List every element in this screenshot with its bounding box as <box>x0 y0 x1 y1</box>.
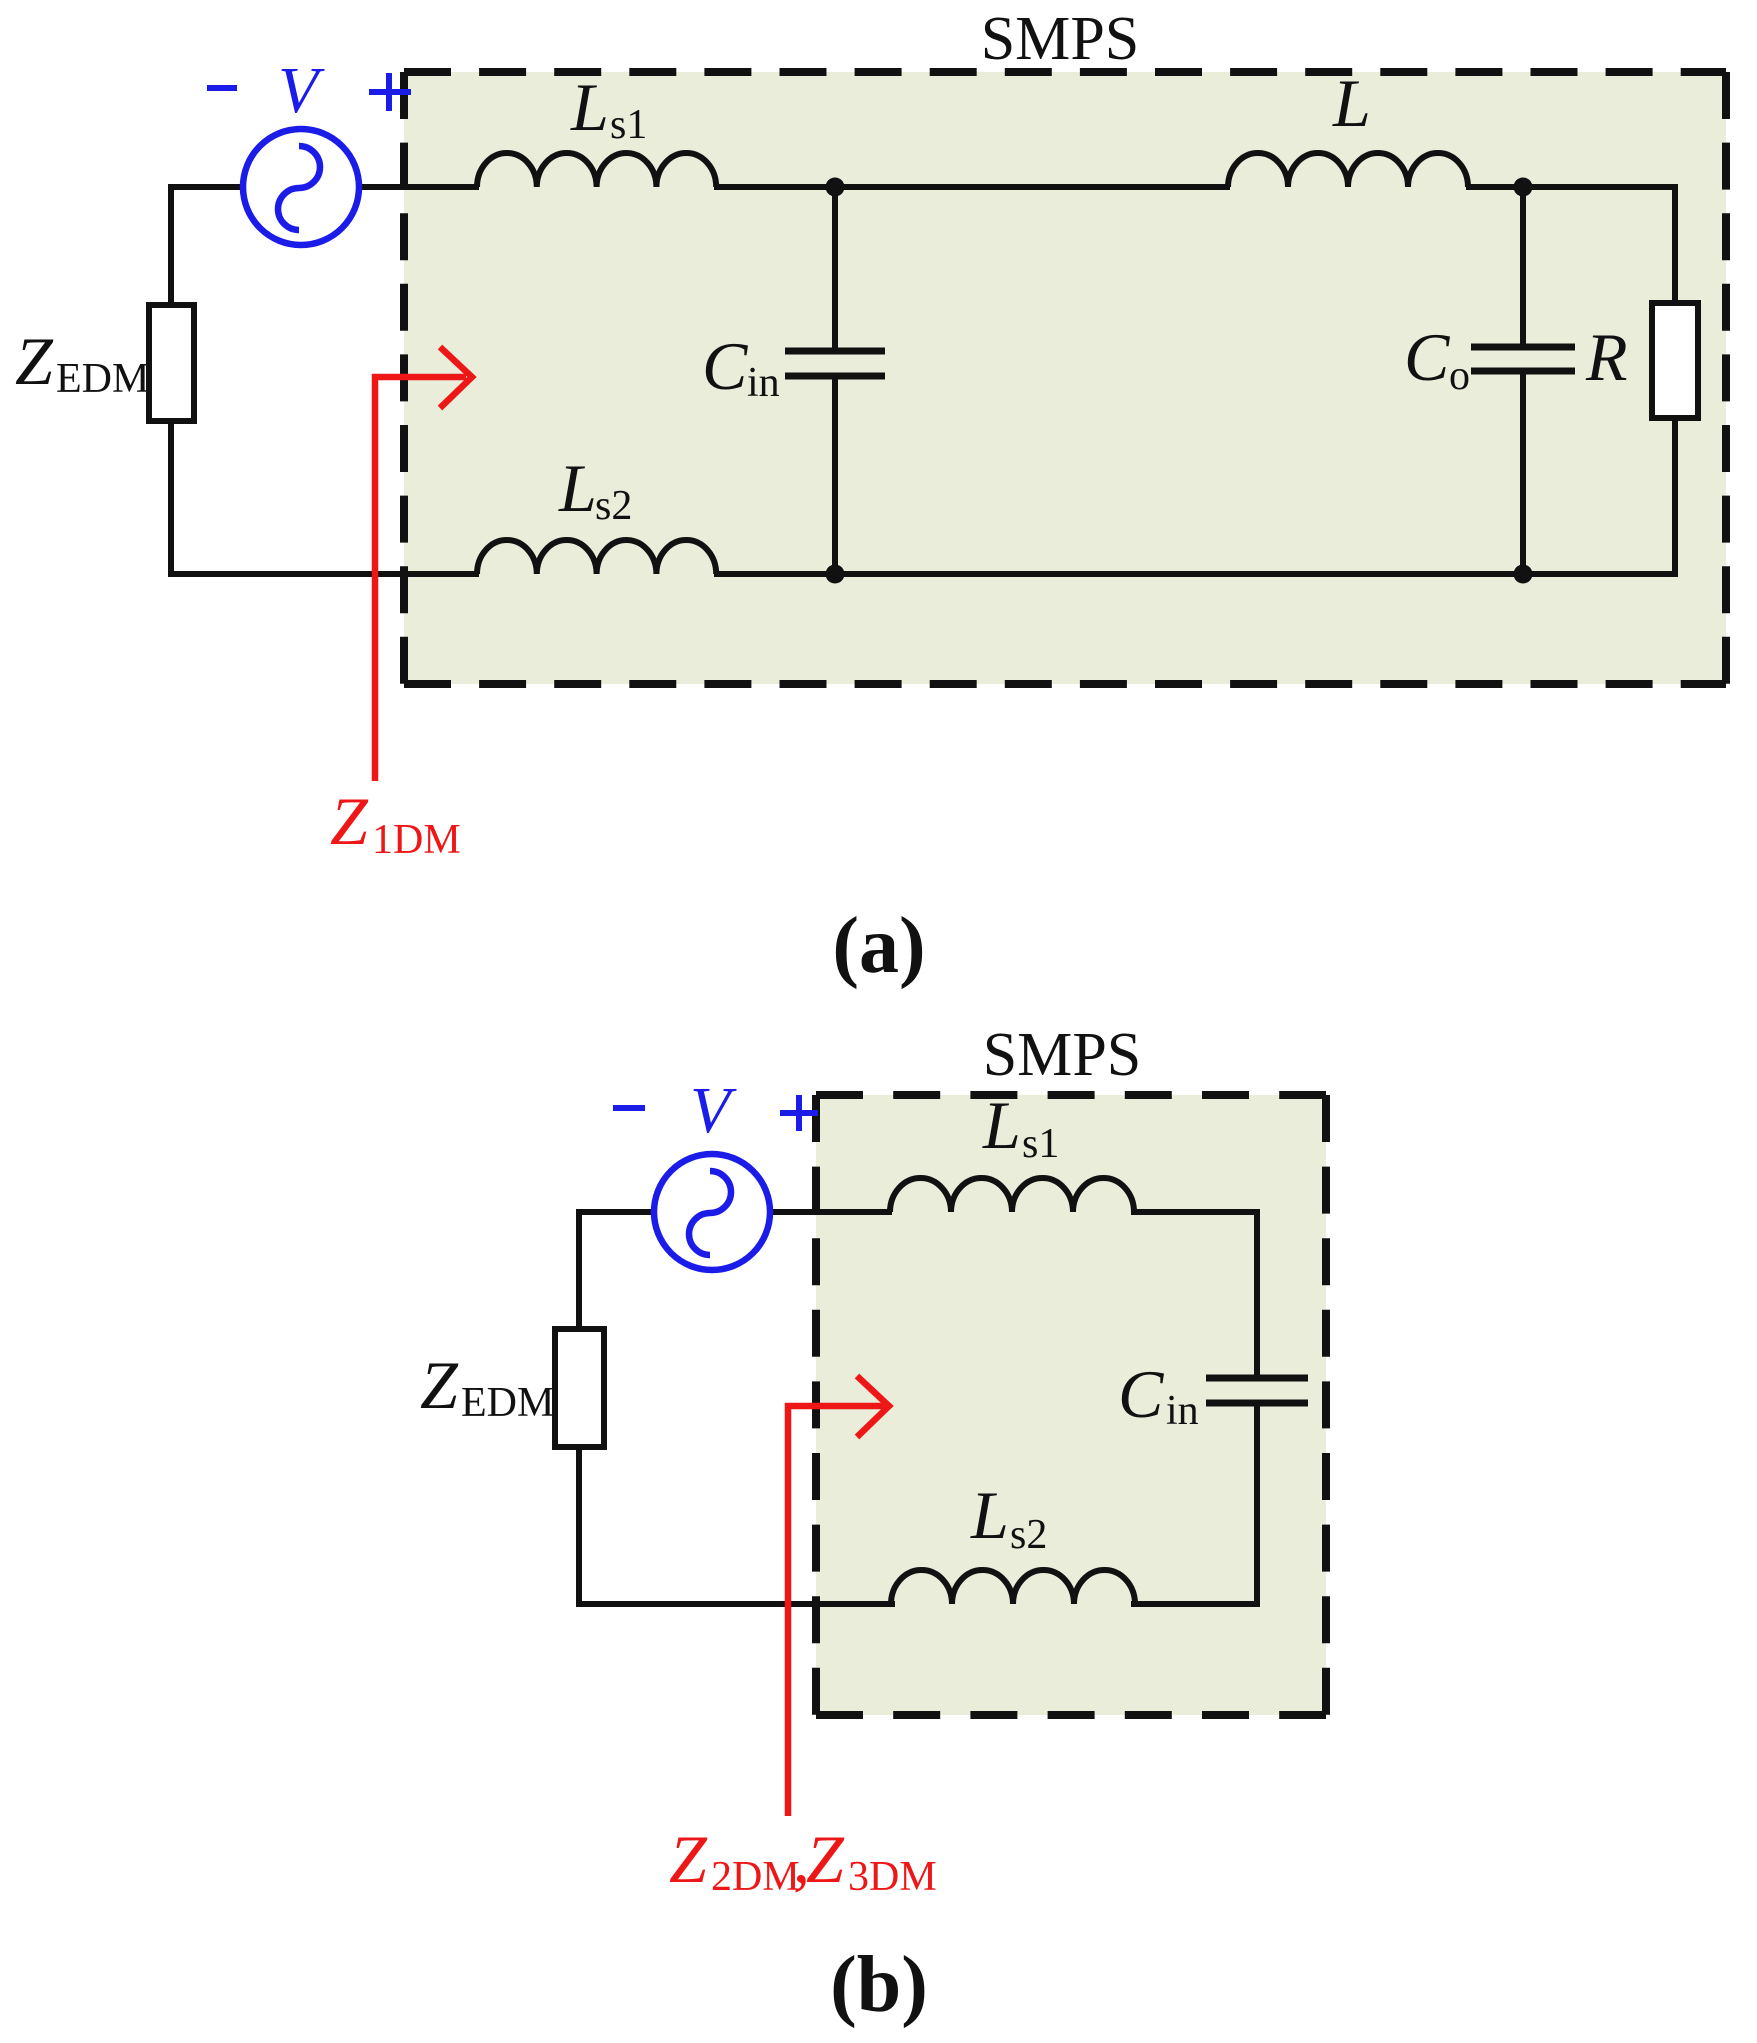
wire: ZEDM to bottom rail (b) <box>576 1446 582 1607</box>
svg-text:SMPS: SMPS <box>981 5 1140 73</box>
wire: bottom rail to Ls2 (b) <box>576 1601 895 1607</box>
svg-text:(a): (a) <box>832 902 925 990</box>
red impedance arrow Z2DM (b) <box>788 1376 889 1816</box>
capacitor Co (a) <box>1471 347 1575 371</box>
wire: bottom from Ls2 to right corner <box>714 571 1678 577</box>
node dot top Cin <box>826 178 845 197</box>
svg-text:L: L <box>982 1087 1021 1163</box>
svg-text:L: L <box>570 69 609 145</box>
svg-text:s1: s1 <box>610 102 647 148</box>
wire: Co branch lower <box>1520 369 1526 577</box>
inductor L (a) <box>1228 153 1468 187</box>
svg-text:Z: Z <box>15 323 54 399</box>
SMPS box dashed border (b) <box>816 1095 1326 1715</box>
svg-text:C: C <box>1404 319 1450 395</box>
SMPS box dashed border (a) <box>404 72 1726 684</box>
svg-text:EDM: EDM <box>56 356 149 402</box>
svg-text:Z: Z <box>330 783 369 859</box>
resistor ZEDM (a) <box>149 305 194 421</box>
label plus (b) <box>780 1095 818 1131</box>
wire: left from source <box>171 184 245 190</box>
svg-text:SMPS: SMPS <box>983 1021 1142 1089</box>
svg-text:s1: s1 <box>1022 1121 1059 1167</box>
svg-text:(b): (b) <box>830 1941 928 2029</box>
svg-text:1DM: 1DM <box>372 817 461 863</box>
inductor Ls2 (a) <box>477 540 716 574</box>
capacitor Cin (a) <box>785 351 885 376</box>
label minus (b) <box>613 1105 645 1111</box>
inductor Ls1 (b) <box>890 1178 1134 1212</box>
wire: left from source (b) <box>579 1209 656 1215</box>
svg-text:in: in <box>1166 1388 1199 1434</box>
wire: left rail down to ZEDM <box>168 184 174 306</box>
svg-text:s2: s2 <box>595 483 632 529</box>
wire: bottom rail to Ls2 <box>168 571 479 577</box>
wire: bottom from Ls2 to right corner (b) <box>1131 1601 1260 1607</box>
wire: top from Ls1 to right corner (b) <box>1131 1209 1260 1215</box>
svg-text:EDM: EDM <box>461 1380 554 1426</box>
wire: R branch lower <box>1672 418 1678 577</box>
svg-text:Z: Z <box>806 1821 845 1897</box>
label minus (a) <box>207 85 237 91</box>
node dot top Co <box>1514 178 1533 197</box>
wire: top between Ls1 and L <box>714 184 1230 190</box>
svg-text:2DM: 2DM <box>711 1854 800 1900</box>
svg-text:L: L <box>970 1477 1009 1553</box>
svg-text:Z: Z <box>420 1347 459 1423</box>
AC source V (b) <box>654 1154 770 1270</box>
svg-text:s2: s2 <box>1010 1512 1047 1558</box>
wire: top from L to right corner <box>1466 184 1678 190</box>
wire: right rail lower from Cin (b) <box>1254 1401 1260 1607</box>
svg-text:C: C <box>1118 1356 1164 1432</box>
wire: left rail down to ZEDM (b) <box>576 1209 582 1331</box>
SMPS box fill (a) <box>404 72 1726 684</box>
wire: Cin branch upper <box>832 184 838 353</box>
wire: top from source to Ls1 <box>359 184 479 190</box>
svg-text:V: V <box>278 54 325 127</box>
svg-text:V: V <box>690 1074 737 1147</box>
node dot bottom Cin <box>826 565 845 584</box>
inductor Ls1 (a) <box>477 153 716 187</box>
svg-text:3DM: 3DM <box>848 1854 937 1900</box>
resistor ZEDM (b) <box>555 1329 604 1447</box>
SMPS box fill (b) <box>816 1095 1326 1715</box>
svg-text:L: L <box>558 450 597 526</box>
wire: R branch upper <box>1672 184 1678 304</box>
svg-text:L: L <box>1332 65 1371 141</box>
wire: Co branch upper <box>1520 184 1526 349</box>
svg-text:R: R <box>1585 319 1628 395</box>
resistor R (a) <box>1652 303 1698 418</box>
wire: top from source to Ls1 (b) <box>770 1209 892 1215</box>
svg-text:in: in <box>747 360 780 406</box>
wire: right rail upper to Cin (b) <box>1254 1209 1260 1380</box>
label plus (a) <box>369 73 411 111</box>
red impedance arrow Z1DM (a) <box>375 347 472 781</box>
capacitor Cin (b) <box>1206 1378 1308 1403</box>
svg-text:Z: Z <box>669 1821 708 1897</box>
node dot bottom Co <box>1514 565 1533 584</box>
svg-text:o: o <box>1449 353 1470 399</box>
wire: Cin branch lower <box>832 374 838 577</box>
svg-text:C: C <box>702 328 748 404</box>
wire: ZEDM to bottom rail <box>168 420 174 577</box>
AC source V (a) <box>243 129 359 245</box>
inductor Ls2 (b) <box>891 1570 1135 1604</box>
